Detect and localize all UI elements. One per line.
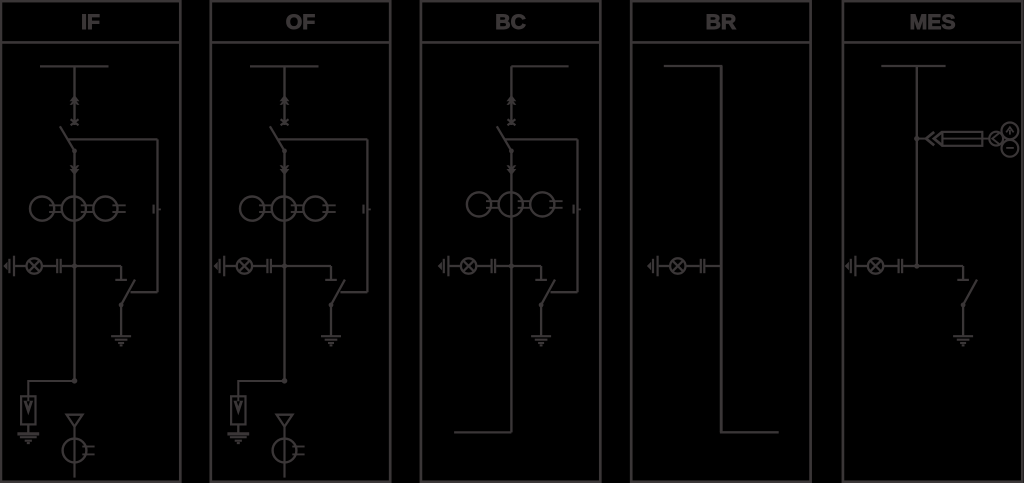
wire (OF earthing branch horizontal) [278,138,368,140]
wire (BC earthing branch vertical) [576,139,578,292]
wire (MES earthing switch to ground) [962,305,964,336]
wire (IF arrester branch) [28,381,74,396]
withdrawable contact lower (BC) [507,165,517,175]
panel BR frame [631,1,810,482]
wire (MES rod to handle) [982,138,989,140]
wire (OF arrester branch) [238,381,284,396]
wire (MES row to earthing switch) [917,265,963,267]
panel IF header separator [1,41,180,44]
wire (MES rod lead) [917,138,926,140]
indicator lamp (MES) [868,258,883,273]
VT fuse marker (IF) [67,415,83,427]
capacitor (BR indicator) [701,259,705,273]
busbar (IF) [40,65,109,67]
busbar (MES) [881,65,945,67]
junction (IF bottom tap) [72,378,78,384]
capacitor (MES indicator) [899,259,903,273]
wire (BC indicator row, capacitor to main) [496,265,511,267]
junction (IF earthing switch hinge) [119,303,124,308]
disconnector blade (BC) [497,126,512,151]
panel BR header separator [631,41,810,44]
junction (OF disconnector lower contact) [282,149,287,154]
wire (BR indicator row, capacitor to main) [705,265,721,267]
wire (IF indicator row, lamp to capacitor) [42,265,56,267]
svg-text:BC: BC [495,11,526,34]
wire (BC earthing branch to switch blade) [551,291,578,293]
wire (OF indicator row, capacitor to main) [272,265,285,267]
busbar stub (BR bottom) [720,431,779,433]
panel OF header separator [211,41,390,44]
disconnector open-position marker (OF) [281,119,289,125]
junction (OF bottom tap) [282,378,288,384]
ground (IF earthing switch) [111,336,131,345]
junction (OF indicator row) [282,263,287,268]
wire (OF indicator row, divider to lamp) [225,265,237,267]
wire (OF VT lead) [283,427,285,478]
wire (IF earthing branch to switch blade) [131,291,158,293]
wire (IF indicator row, capacitor to main) [62,265,75,267]
current transformer CT2 (BC) [499,192,531,216]
wire (IF busbar drop) [73,66,75,125]
wire (IF main feeder) [73,151,75,381]
wire (OF busbar drop) [283,66,285,125]
busbar (OF) [250,65,319,67]
operating rod (MES) [942,132,982,146]
indicator lamp (BC) [461,258,476,273]
wire (BC row to earthing switch) [511,265,541,267]
wire (BR indicator row, lamp to capacitor) [685,265,699,267]
svg-text:IF: IF [81,11,100,34]
wire (BC indicator row, lamp to capacitor) [476,265,490,267]
indicator lamp (IF) [27,258,42,273]
VT fuse marker (OF) [277,415,293,427]
disconnector blade (OF) [270,126,285,151]
wire (MES indicator row, lamp to capacitor) [883,265,897,267]
earthing switch (MES) [957,266,977,304]
panel MES frame [843,1,1022,482]
withdrawable contact lower (OF) [280,165,290,175]
busbar stub (BC) [511,65,568,67]
operating rod contact chevrons (MES) [926,132,942,145]
panel MES header separator [843,41,1022,44]
panel BC frame [421,1,600,482]
wire (BC earthing switch to ground) [540,305,542,336]
wire (OF main feeder) [283,151,285,381]
earthing switch (IF) [115,266,135,304]
wire (BC indicator row, divider to lamp) [450,265,462,267]
wire (BC main feeder) [510,151,512,432]
current transformer CT2 (IF) [62,197,94,221]
withdrawable contact upper (IF) [70,95,80,105]
voltage presence indicator divider (MES) [845,256,856,277]
wire (IF indicator row, divider to lamp) [15,265,27,267]
wire (IF VT lead) [73,427,75,478]
wire (MES busbar drop) [916,66,918,266]
earthing switch (BC) [535,266,555,304]
wire (OF earthing switch to ground) [330,305,332,336]
wire (BC bottom tie to adjacent panel) [454,431,511,433]
capacitor (IF indicator) [57,259,61,273]
voltage presence indicator divider (OF) [214,256,225,277]
junction (BC earthing switch hinge) [539,303,544,308]
wire (BC busbar drop) [510,66,512,125]
test point on earthing branch (BC) [574,205,581,214]
indicator lamp (OF) [237,258,252,273]
current transformer CT3 (IF) [93,197,125,221]
operating handle (MES) [989,122,1018,156]
wire (OF earthing branch vertical) [366,139,368,292]
capacitor (OF indicator) [267,259,271,273]
ground (OF earthing switch) [321,336,341,345]
wire (IF earthing branch vertical) [156,139,158,292]
current transformer CT3 (OF) [303,197,335,221]
wire (OF earthing branch to switch blade) [340,291,367,293]
indicator lamp (BR) [670,258,685,273]
current transformer CT3 (BC) [530,192,562,216]
busbar stub (BR top) [664,65,723,67]
voltage presence indicator divider (BR) [647,256,658,277]
svg-text:OF: OF [286,11,315,34]
ground (OF surge arrester) [227,434,249,443]
current transformer CT1 (OF) [240,197,272,221]
wire (MES indicator row, capacitor to main) [903,265,917,267]
wire (BC earthing branch horizontal) [505,138,578,140]
wire (IF earthing switch to ground) [120,305,122,336]
panel BC header separator [421,41,600,44]
panel OF frame [211,1,390,482]
wire (IF arrester to ground) [27,424,29,433]
wire (OF row to earthing switch) [285,265,332,267]
voltage transformer (IF) [63,439,95,463]
current transformer CT1 (IF) [30,197,62,221]
disconnector open-position marker (BC) [508,119,516,125]
withdrawable contact upper (OF) [280,95,290,105]
wire (IF earthing branch horizontal) [68,138,158,140]
wire (BR indicator row, divider to lamp) [659,265,671,267]
earthing switch (OF) [325,266,345,304]
withdrawable contact lower (IF) [70,165,80,175]
ground (IF surge arrester) [17,434,39,443]
junction (BC disconnector lower contact) [509,149,514,154]
wire (OF arrester to ground) [237,424,239,433]
junction (MES earthing switch hinge) [961,303,966,308]
voltage presence indicator divider (BC) [438,256,449,277]
capacitor (BC indicator) [492,259,496,273]
junction (IF indicator row) [72,263,77,268]
disconnector open-position marker (IF) [71,119,79,125]
svg-text:BR: BR [706,11,737,34]
wire (OF indicator row, lamp to capacitor) [252,265,266,267]
surge arrester (IF) [21,396,35,424]
test point on earthing branch (OF) [364,205,371,214]
withdrawable contact upper (BC) [507,95,517,105]
junction (BC indicator row) [509,263,514,268]
junction (MES operating rod tap) [914,136,919,141]
disconnector blade (IF) [60,126,75,151]
wire (BR riser vertical) [720,66,723,432]
ground (MES earthing switch) [953,336,973,345]
current transformer CT1 (BC) [467,192,499,216]
test point on earthing branch (IF) [154,205,161,214]
junction (MES indicator row) [914,263,919,268]
svg-text:MES: MES [910,11,956,34]
current transformer CT2 (OF) [272,197,304,221]
junction (IF disconnector lower contact) [72,149,77,154]
wire (MES indicator row, divider to lamp) [857,265,869,267]
surge arrester (OF) [231,396,245,424]
panel IF frame [1,1,180,482]
junction (OF earthing switch hinge) [329,303,334,308]
wire (IF row to earthing switch) [75,265,122,267]
ground (BC earthing switch) [531,336,551,345]
voltage transformer (OF) [273,439,305,463]
voltage presence indicator divider (IF) [3,256,14,277]
